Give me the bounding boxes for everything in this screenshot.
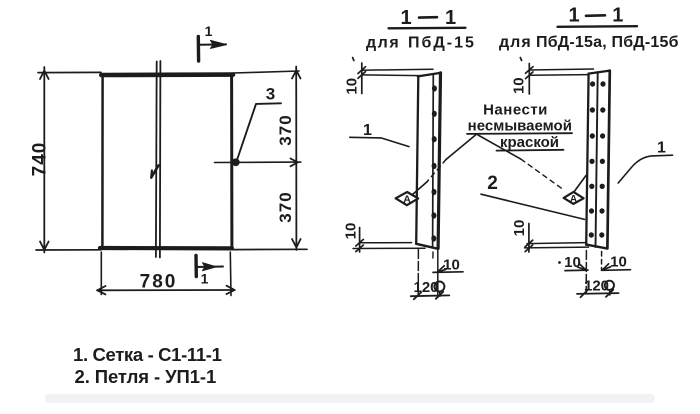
svg-text:3: 3 — [266, 85, 275, 104]
label 1 leader (section A) — [350, 122, 409, 147]
section B dimension 10 top — [511, 58, 594, 95]
svg-text:10: 10 — [610, 254, 627, 271]
svg-text:780: 780 — [140, 272, 178, 293]
section A dimension 10 bottom — [343, 223, 426, 252]
svg-text:1. Сетка - С1-11-1: 1. Сетка - С1-11-1 — [73, 344, 222, 365]
label 1 leader (section B right) — [618, 140, 672, 184]
weld mark diamond B (section B) — [564, 176, 586, 205]
label 2 leader — [481, 173, 585, 219]
dimension 370 lower right — [276, 191, 301, 247]
svg-text:10: 10 — [564, 254, 581, 271]
svg-text:2: 2 — [487, 173, 498, 194]
section B extension lines below — [586, 251, 601, 294]
section A mesh wire line — [432, 76, 435, 247]
section B panel outline — [586, 71, 610, 249]
section B wire dots right column — [599, 81, 605, 237]
section A dimension 10 horizontal — [433, 257, 463, 274]
svg-text:10: 10 — [511, 77, 528, 94]
note text line 2 — [467, 118, 572, 135]
svg-text:несмываемой: несмываемой — [468, 118, 572, 135]
section A dimension 120 with circle — [411, 279, 450, 299]
section A header 1-1 — [389, 7, 466, 29]
note leader V left branch — [446, 134, 477, 160]
bottom faint smudge — [45, 394, 655, 403]
note leader V right branch — [478, 135, 521, 159]
svg-text:1: 1 — [568, 5, 579, 27]
svg-text:1: 1 — [363, 122, 372, 139]
svg-text:370: 370 — [276, 114, 295, 145]
svg-text:1: 1 — [201, 271, 209, 287]
svg-text:2. Петля - УП1-1: 2. Петля - УП1-1 — [75, 366, 217, 387]
svg-text:Нанести: Нанести — [483, 102, 548, 119]
section B mesh middle line — [596, 72, 598, 247]
svg-text:А: А — [403, 194, 411, 206]
svg-text:10: 10 — [511, 220, 528, 237]
svg-text:краской: краской — [500, 134, 559, 151]
dimension 780 bottom — [97, 252, 235, 296]
leader 3 — [238, 85, 282, 159]
section B dimension 120 with circle — [577, 278, 619, 298]
panel plan view outline — [100, 74, 233, 248]
svg-text:1: 1 — [657, 140, 666, 157]
svg-text:10: 10 — [343, 223, 360, 240]
svg-text:для: для — [366, 35, 400, 52]
svg-text:10: 10 — [443, 257, 460, 274]
section A dimension 10 top — [344, 58, 434, 95]
dimension 740 left — [30, 67, 308, 253]
section B dimension 10 left horizontal — [558, 254, 588, 271]
svg-text:1: 1 — [400, 7, 411, 29]
svg-text:ПбД-15а, ПбД-15б: ПбД-15а, ПбД-15б — [536, 34, 679, 51]
svg-text:для: для — [499, 34, 532, 51]
section A panel outline — [416, 73, 440, 249]
svg-text:1: 1 — [612, 5, 623, 27]
svg-text:740: 740 — [30, 142, 51, 177]
note text line 3 — [497, 134, 564, 151]
dashed leader to diamond B — [521, 159, 563, 189]
svg-text:10: 10 — [344, 78, 361, 95]
section A extension lines below — [418, 249, 438, 296]
svg-text:370: 370 — [276, 191, 295, 222]
section B wire dots left column — [589, 81, 596, 237]
mesh seam double line — [151, 61, 160, 258]
svg-text:1: 1 — [445, 7, 456, 29]
svg-text:1: 1 — [205, 23, 213, 39]
dimension 370 upper right — [233, 67, 301, 251]
mid extension line with node circle — [215, 159, 301, 166]
section B subtitle — [499, 34, 679, 51]
weld mark diamond A (section A) — [396, 182, 427, 206]
section A subtitle — [366, 35, 476, 52]
section B dimension 10 bottom — [511, 220, 589, 252]
section mark 1 top — [198, 23, 226, 61]
section A wire dots — [431, 85, 437, 241]
section B header 1-1 — [558, 5, 638, 27]
svg-text:А: А — [570, 194, 577, 205]
section mark 1 bottom — [196, 256, 223, 287]
svg-text:ПбД-15: ПбД-15 — [408, 35, 476, 52]
dashed leader to diamond A — [427, 160, 446, 183]
section B dimension 10 right horizontal — [602, 254, 631, 271]
